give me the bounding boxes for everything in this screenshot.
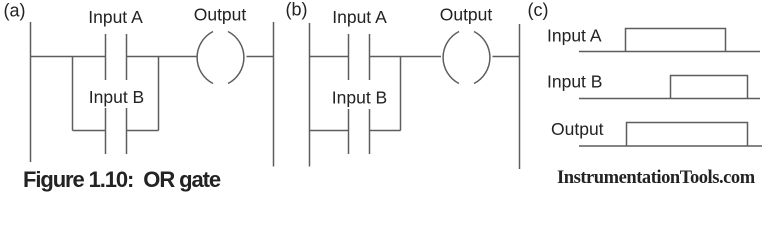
- svg-text:(b): (b): [286, 0, 308, 20]
- svg-text:InstrumentationTools.com: InstrumentationTools.com: [557, 168, 756, 188]
- svg-text:Input B: Input B: [547, 72, 602, 92]
- svg-text:Input B: Input B: [332, 88, 387, 108]
- svg-text:Output: Output: [440, 5, 493, 25]
- svg-text:Input A: Input A: [88, 7, 143, 27]
- svg-text:Output: Output: [194, 5, 247, 25]
- svg-text:(a): (a): [4, 1, 26, 21]
- svg-text:Input A: Input A: [332, 7, 387, 27]
- svg-text:(c): (c): [528, 0, 549, 20]
- svg-text:Figure 1.10: OR gate: Figure 1.10: OR gate: [23, 167, 221, 192]
- svg-text:Output: Output: [551, 119, 604, 139]
- svg-text:Input B: Input B: [89, 87, 144, 107]
- svg-text:Input A: Input A: [547, 26, 602, 46]
